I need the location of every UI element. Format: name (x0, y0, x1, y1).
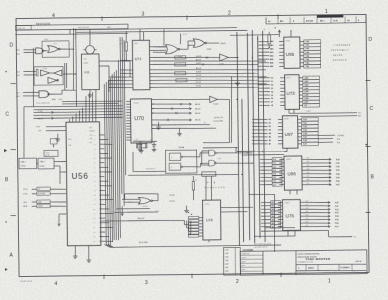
U56 pin wire J-5 (23, 187, 66, 191)
U71 pin wire (149, 55, 219, 59)
U56 pin wire LTRST (23, 204, 66, 208)
U76 pin wire (261, 203, 339, 208)
U95 pin wire (258, 54, 320, 58)
wire bus vertical (106, 82, 108, 245)
capacitor C (135, 139, 142, 152)
sheet note (20, 281, 32, 283)
U96 pin wire (260, 175, 340, 180)
U71 pin wire (120, 69, 132, 71)
U71 pin wire (120, 72, 132, 74)
U56 pin (93, 226, 113, 229)
svg-text:4-86: 4-86 (306, 179, 309, 181)
svg-text:7 4 S: 7 4 S (53, 44, 56, 46)
wire feedback loop 2 (34, 66, 63, 85)
U71 pin wire (149, 66, 266, 71)
U56 pin (93, 221, 109, 224)
U56 pin (93, 240, 113, 243)
svg-text:D: D (9, 42, 13, 48)
svg-text:LS245: LS245 (284, 119, 289, 121)
svg-text:L17 4B: L17 4B (42, 68, 47, 70)
U97 pin wire (252, 135, 318, 139)
U78 pin network R (188, 216, 202, 218)
notes text (244, 243, 271, 251)
U95 pin wire (258, 43, 320, 47)
U71 pin wire (149, 62, 258, 66)
svg-text:DB2: DB2 (93, 218, 96, 220)
wire feedback loop (42, 41, 69, 58)
svg-text:AB1: AB1 (270, 44, 273, 47)
U73 pin wire (258, 93, 319, 97)
svg-text:+5: +5 (195, 179, 197, 181)
U71 pin wire (149, 78, 258, 82)
svg-text:3.5795: 3.5795 (40, 166, 45, 168)
svg-text:Y-A4: Y-A4 (305, 54, 309, 57)
svg-text:+5: +5 (255, 80, 257, 82)
svg-text:F-1.05: F-1.05 (196, 75, 201, 77)
svg-text:1: 1 (328, 278, 331, 284)
U70 out wire (151, 112, 200, 116)
U70 pin (126, 117, 130, 119)
svg-text:T-D7: T-D7 (303, 144, 307, 146)
U70 out wire 2 (152, 98, 195, 101)
svg-text:DB0: DB0 (93, 208, 96, 210)
U56 pin (93, 203, 105, 206)
oscillator U11 (81, 54, 99, 90)
buffer U61B (42, 68, 62, 76)
svg-text:E-4.07 GND: E-4.07 GND (214, 121, 224, 123)
U95 pin wire (258, 50, 320, 54)
svg-text:4: 4 (52, 13, 55, 19)
svg-text:C-plug: C-plug (45, 152, 49, 154)
junctions (235, 38, 264, 175)
U71 pin wire (149, 85, 258, 89)
wire feedback right (231, 76, 233, 143)
wire latch to gates (182, 151, 209, 167)
svg-text:U73: U73 (286, 91, 295, 96)
svg-text:DB1: DB1 (93, 213, 96, 215)
svg-text:B-0: B-0 (272, 202, 275, 204)
svg-text:U78: U78 (206, 218, 213, 222)
net F-2.04 (170, 201, 175, 203)
svg-text:B6: B6 (269, 140, 271, 142)
wire U56 aux down-arrow (57, 214, 66, 226)
resistor R17 (30, 69, 38, 76)
U73 pin wire (258, 79, 319, 83)
svg-text:J2-2: J2-2 (17, 53, 20, 55)
svg-text:74LS08: 74LS08 (143, 206, 148, 208)
svg-text:B0: B0 (269, 119, 271, 121)
svg-text:U11: U11 (84, 70, 90, 74)
svg-text:REV A: REV A (356, 260, 362, 263)
IC U97 (282, 116, 298, 149)
svg-text:B-1: B-1 (272, 206, 275, 208)
wire staircase to U78 (184, 212, 192, 234)
ground (177, 128, 182, 136)
U56 inner labels (68, 126, 96, 147)
notes column (223, 247, 240, 275)
wire loop bottom (128, 174, 238, 176)
svg-text:B-5: B-5 (272, 219, 275, 221)
svg-text:Q-B2: Q-B2 (304, 84, 308, 86)
U76 pin wire (261, 214, 339, 219)
wire trunk pair 2 (64, 63, 66, 90)
junction x-marks (166, 56, 209, 121)
svg-text:3: 3 (141, 12, 144, 18)
svg-text:F-1.06: F-1.06 (196, 79, 201, 81)
U56 pin (93, 143, 112, 146)
svg-text:T-D6: T-D6 (303, 140, 307, 142)
wire right link (249, 194, 276, 252)
svg-text:CHECK: CHECK (241, 257, 246, 259)
U78 pin network R (188, 223, 202, 225)
U70 out wire (152, 107, 201, 111)
svg-text:D7: D7 (271, 102, 273, 104)
U56 pin (93, 170, 112, 173)
svg-text:AB3: AB3 (270, 51, 273, 54)
U56 pin (93, 156, 112, 159)
svg-text:D0: D0 (271, 78, 273, 80)
U56 pin (93, 138, 108, 141)
svg-text:F-1.07: F-1.07 (196, 82, 201, 84)
IC U73 (285, 75, 300, 110)
svg-text:CLK: CLK (90, 135, 93, 137)
svg-text:S-B.05: S-B.05 (196, 56, 201, 58)
U56 pin wire A-1.2 RxD (23, 192, 66, 196)
U70 pin (126, 100, 130, 102)
svg-text:F-55: F-55 (335, 219, 339, 221)
svg-text:N O D E C O D E: N O D E C O D E (204, 187, 225, 189)
svg-text:4-95: 4-95 (306, 218, 309, 220)
U70 pin (126, 120, 130, 122)
ground (184, 206, 189, 213)
svg-text:Y-A6: Y-A6 (305, 62, 309, 65)
wire U56 top pin (88, 93, 91, 122)
U71 pin wire (149, 71, 258, 75)
U70 pin (126, 136, 130, 138)
svg-text:LS138: LS138 (134, 103, 139, 105)
U56 pin (93, 194, 109, 197)
svg-text:4.7 MF: 4.7 MF (45, 155, 50, 157)
U73 pin wire (258, 104, 319, 108)
svg-text:S-B.07: S-B.07 (196, 63, 201, 65)
svg-text:ZONE LTR: ZONE LTR (17, 28, 26, 30)
U71 pin wire (109, 83, 132, 86)
U71 top pin (140, 29, 144, 40)
svg-text:U71: U71 (135, 57, 142, 61)
svg-text:Y-A3: Y-A3 (305, 51, 309, 54)
IC U78 (202, 200, 220, 240)
svg-text:Q-B0: Q-B0 (304, 78, 308, 80)
U97 pin wire (252, 132, 318, 136)
svg-text:DB6: DB6 (93, 236, 96, 238)
svg-text:Y-A1: Y-A1 (305, 44, 309, 47)
latch box U85 (165, 146, 197, 173)
svg-text:Q-B6: Q-B6 (304, 98, 308, 100)
svg-text:B5: B5 (269, 137, 271, 139)
U78 pin network R (188, 220, 202, 222)
label R08 (52, 98, 64, 101)
svg-text:P.06: P.06 (337, 139, 340, 141)
U70 pin (126, 125, 130, 127)
U71 pin wire (149, 81, 266, 85)
svg-text:(M-1.2): (M-1.2) (38, 118, 44, 120)
buffer U82 (219, 54, 238, 66)
svg-text:+5 220: +5 220 (217, 158, 222, 160)
net M-1.2 (38, 117, 54, 120)
svg-text:T-D3: T-D3 (303, 130, 307, 132)
svg-text:Q-B7: Q-B7 (304, 102, 308, 104)
pin J2-4 (17, 75, 30, 77)
svg-text:T-D0: T-D0 (303, 119, 307, 121)
U70 pin (126, 133, 130, 135)
svg-text:D6: D6 (271, 98, 273, 100)
svg-text:B-3: B-3 (272, 213, 275, 215)
svg-text:DB7: DB7 (93, 241, 96, 243)
svg-text:4.7K: 4.7K (119, 44, 122, 46)
wire U95 pin1 (290, 30, 291, 37)
svg-text:P4.2B: P4.2B (214, 104, 218, 106)
U78 pin network R (188, 232, 202, 234)
pin P1-8 (16, 96, 20, 98)
U71 pin wire (149, 46, 166, 48)
U73 pin wire (258, 97, 319, 101)
svg-text:LS367: LS367 (286, 159, 291, 161)
wire bus vertical (118, 60, 120, 238)
wire U96 bottom (290, 190, 297, 194)
U76 pin wire (261, 221, 339, 226)
svg-text:4.9152: 4.9152 (21, 166, 26, 168)
node A arrow (274, 27, 280, 38)
svg-text:AD-03: AD-03 (195, 112, 200, 115)
gate U86A (209, 150, 217, 156)
approvals text 2 (243, 249, 254, 252)
net T-1.2 (38, 110, 54, 113)
svg-text:DESCRIPTION: DESCRIPTION (78, 27, 90, 29)
gate U64 OR (122, 193, 158, 208)
U78 pin network R (188, 226, 202, 228)
pullup +5 (263, 29, 271, 48)
U71 pin wire (149, 49, 166, 51)
svg-text:1.4-88: 1.4-88 (225, 271, 229, 273)
svg-text:F-1254871: F-1254871 (340, 266, 349, 269)
U97 pin wire (252, 139, 318, 143)
U56 pin (93, 180, 108, 183)
U73 pin wire (258, 86, 319, 90)
wire osc out (99, 61, 130, 92)
svg-text:B2: B2 (269, 126, 271, 128)
svg-text:T-D5: T-D5 (303, 137, 307, 139)
approvals text (241, 252, 251, 271)
label decode (204, 182, 225, 189)
U73 pin wire (259, 90, 320, 94)
U56 upper-left pins (36, 126, 66, 132)
wire cluster2 out (63, 73, 76, 74)
wire bus vertical (104, 84, 106, 245)
svg-text:U97: U97 (285, 132, 294, 137)
svg-text:C-80 MOD 123-45: C-80 MOD 123-45 (20, 281, 32, 283)
svg-text:F-50: F-50 (335, 202, 339, 204)
U76 pin wire (261, 207, 339, 212)
ground (156, 122, 161, 129)
svg-text:Y-A0: Y-A0 (305, 40, 309, 43)
svg-text:AB5: AB5 (270, 58, 273, 61)
U56 pin (93, 217, 105, 220)
U56 pin (93, 208, 109, 211)
svg-text:S O C K E T S: S O C K E T S (333, 60, 347, 62)
svg-text:L-17.1 2: L-17.1 2 (167, 31, 173, 33)
svg-text:1.92 PB18: 1.92 PB18 (337, 135, 344, 137)
svg-text:E.2: E.2 (204, 122, 206, 124)
wire U56 top pin (68, 119, 70, 122)
svg-text:1.4-88: 1.4-88 (225, 253, 229, 255)
svg-text:P4.0B: P4.0B (178, 56, 182, 58)
wire trunk pair (73, 28, 77, 107)
svg-text:S-A.01: S-A.01 (220, 42, 226, 45)
svg-text:LS244: LS244 (285, 40, 290, 42)
svg-text:S-B.09: S-B.09 (196, 72, 201, 74)
svg-text:4-94: 4-94 (305, 215, 308, 217)
U56 pin (93, 212, 113, 215)
svg-text:F-46: F-46 (336, 180, 340, 183)
gate U60A (29, 48, 44, 54)
U70 pin (126, 109, 130, 111)
svg-text:AB0: AB0 (270, 40, 273, 43)
svg-text:REL 2: REL 2 (320, 20, 325, 22)
wire U70 east links (152, 124, 217, 129)
svg-text:4-83: 4-83 (307, 169, 310, 171)
svg-text:4-81: 4-81 (306, 161, 309, 163)
U70 pin (126, 131, 130, 133)
U96 pin wire (260, 157, 340, 162)
wire address bus (33, 114, 122, 115)
U95 pin wire (259, 57, 321, 61)
wire U76 bottom (254, 230, 295, 236)
wire cap feed (133, 140, 157, 143)
svg-text:F-41: F-41 (336, 162, 340, 165)
svg-text:B4: B4 (269, 132, 271, 135)
svg-text:P + B: P + B (207, 182, 216, 184)
svg-text:J2-1: J2-1 (17, 50, 20, 52)
U76 pin wire (261, 224, 339, 229)
svg-text:DB4: DB4 (93, 227, 96, 229)
bus: data/address verticals (237, 30, 265, 246)
U95 pin wire (258, 61, 320, 65)
svg-text:UNLESS OTHERWISE SPECIFIED: UNLESS OTHERWISE SPECIFIED (297, 254, 319, 256)
svg-text:2: 2 (236, 279, 239, 285)
revision table (15, 23, 128, 35)
wire bus vertical (120, 37, 122, 194)
svg-text:1.4-88: 1.4-88 (225, 250, 229, 252)
svg-text:F-2.04: F-2.04 (170, 201, 175, 203)
svg-text:4-93: 4-93 (306, 211, 309, 213)
svg-text:F-1.08: F-1.08 (196, 86, 201, 88)
buffer U83 (194, 96, 230, 143)
svg-text:D5: D5 (271, 95, 273, 97)
U96 pin wire (260, 179, 340, 184)
U73 pin wire (258, 76, 319, 80)
U97 pin wire (252, 125, 318, 129)
svg-text:Q-B1: Q-B1 (304, 81, 308, 83)
svg-text:LS373: LS373 (286, 78, 291, 80)
svg-text:U70: U70 (134, 116, 144, 122)
svg-text:U56: U56 (71, 172, 88, 181)
U56 pin (93, 198, 113, 201)
wire U56 top pin (85, 96, 88, 122)
svg-text:1.4-88: 1.4-88 (225, 267, 229, 269)
wire bus vertical (122, 37, 124, 206)
svg-text:B-6: B-6 (272, 223, 275, 225)
U70 pin (126, 139, 130, 141)
svg-text:AD-04: AD-04 (195, 119, 200, 122)
svg-text:F-52: F-52 (335, 209, 339, 211)
wire bus vertical (124, 40, 126, 175)
svg-text:F-53: F-53 (335, 213, 339, 215)
IC U76 (282, 200, 300, 231)
wire: top horizontal bus (73, 27, 279, 37)
svg-text:AD-02: AD-02 (195, 107, 200, 110)
svg-text:D0B: D0B (90, 138, 93, 140)
note +5V (214, 117, 224, 123)
svg-text:4-80: 4-80 (306, 158, 309, 160)
wire bottom run (104, 241, 281, 248)
capacitor C9 (50, 139, 57, 148)
U97 extra nets (318, 135, 367, 146)
svg-text:C: C (5, 111, 9, 117)
svg-text:74S00: 74S00 (44, 39, 49, 41)
svg-text:W.17: W.17 (358, 116, 362, 118)
svg-text:REVISIONS: REVISIONS (36, 23, 51, 25)
svg-text:D2: D2 (271, 84, 273, 86)
svg-text:AB4: AB4 (270, 54, 273, 57)
svg-text:F/A 4.07: F/A 4.07 (137, 217, 144, 220)
wire left rail (33, 48, 34, 107)
wire U56 top pin (81, 108, 83, 123)
arrow down (121, 206, 124, 216)
svg-text:S: S (171, 157, 172, 159)
svg-text:B1: B1 (269, 123, 271, 125)
ground (88, 90, 93, 98)
svg-text:1.4-88: 1.4-88 (225, 264, 229, 266)
U56 pin (93, 175, 104, 178)
svg-text:T-D2: T-D2 (303, 126, 307, 128)
svg-text:SHEET 1: SHEET 1 (352, 272, 358, 274)
svg-text:P1-7: P1-7 (16, 92, 20, 94)
U95 pin wire (258, 47, 320, 51)
U78 pin network R (188, 229, 202, 231)
wire loop top (203, 148, 236, 154)
U56 pin (93, 231, 105, 234)
gate U81 NOR (164, 29, 226, 52)
svg-text:U96: U96 (287, 171, 296, 176)
U71 pin wire (109, 79, 132, 82)
U73 pin wire (259, 83, 320, 87)
resistor R21 +5 (192, 176, 197, 200)
IC U95 (284, 37, 300, 68)
svg-text:I - T E L E G A T E: I - T E L E G A T E (333, 44, 351, 47)
svg-text:4-84: 4-84 (306, 172, 309, 174)
U70 pin (126, 106, 130, 108)
svg-text:P1-8: P1-8 (16, 96, 20, 98)
title text (297, 253, 362, 275)
svg-text:F-56: F-56 (335, 223, 339, 225)
wire U56 top pin (94, 90, 97, 122)
gate U86B (209, 160, 216, 166)
svg-text:ENGR: ENGR (241, 261, 245, 263)
svg-text:INT: INT (90, 142, 93, 144)
U76 pin wire (261, 200, 339, 205)
U76 pin wire (261, 217, 339, 222)
svg-text:4-92: 4-92 (305, 208, 308, 210)
